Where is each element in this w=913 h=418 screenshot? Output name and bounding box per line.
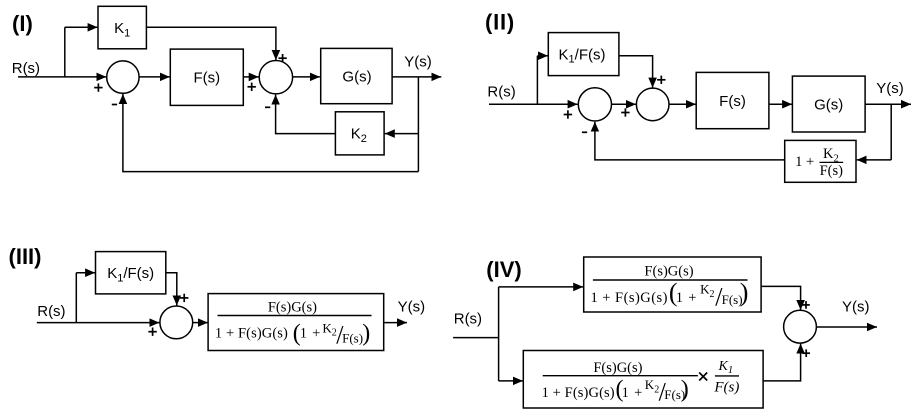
wire R(s) to summer S1 — [18, 76, 106, 78]
summer S2 II — [636, 88, 669, 121]
svg-text:): ) — [362, 321, 370, 347]
wire into K2 — [385, 133, 419, 135]
wire branch up from node — [64, 27, 66, 77]
block K1/F(s) II — [548, 33, 619, 76]
svg-text:1 +: 1 + — [300, 325, 321, 341]
svg-text:F(s)G(s): F(s)G(s) — [593, 360, 642, 376]
svg-text:Y(s): Y(s) — [876, 80, 904, 97]
block upper transfer function IV — [584, 257, 761, 312]
svg-text:F(s): F(s) — [713, 380, 739, 396]
plus sign at summer bottom IV — [802, 349, 810, 357]
wire into K1/F(s) — [537, 55, 548, 57]
summer S1 II — [578, 88, 611, 121]
wire output II — [865, 103, 911, 105]
wire upper block to summer top IV — [761, 286, 801, 310]
summer IV — [784, 310, 817, 343]
plus sign at S1 left — [94, 83, 102, 91]
wire F(s) to G(s) II — [769, 103, 792, 105]
svg-text:1 + F(s)G(s): 1 + F(s)G(s) — [215, 325, 288, 341]
plus sign at S1 left II — [564, 110, 572, 118]
svg-text:R(s): R(s) — [37, 303, 65, 320]
plus sign at S2 top — [278, 54, 286, 62]
wire R(s) input IV — [453, 337, 499, 339]
plus sign at S2 left — [248, 83, 256, 91]
wire K1 to summer S2 top — [146, 27, 276, 60]
svg-text:F(s): F(s) — [342, 330, 363, 345]
wire summer to block III — [193, 322, 208, 324]
summer S2 — [259, 60, 292, 93]
wire S1 to S2 II — [612, 103, 636, 105]
wire into upper block IV — [499, 286, 584, 288]
block F(s) II — [696, 72, 769, 128]
svg-text:F(s): F(s) — [719, 93, 746, 110]
wire output node down — [417, 77, 419, 172]
svg-text:F(s): F(s) — [820, 163, 844, 179]
svg-text:): ) — [740, 278, 749, 307]
block K1 — [98, 6, 146, 49]
wire K2 to summer S2 bottom — [276, 95, 336, 134]
wire branch vertical IV — [498, 287, 500, 381]
wire lower block to summer bottom IV — [763, 344, 801, 381]
block 1+K2/F(s) II — [785, 140, 856, 182]
block G(s) diagram I — [321, 48, 392, 103]
wire output IV — [816, 326, 877, 328]
svg-text:F(s)G(s): F(s)G(s) — [268, 300, 317, 316]
wire outer feedback to S1 bottom — [123, 94, 419, 172]
wire G(s) to output Y(s) — [392, 76, 441, 78]
plus sign at summer left III — [148, 328, 156, 336]
svg-text:G(s): G(s) — [342, 68, 371, 85]
block F(s) diagram I — [170, 49, 243, 105]
svg-text:(IV): (IV) — [486, 257, 521, 282]
svg-text:R(s): R(s) — [454, 310, 482, 327]
svg-text:R(s): R(s) — [487, 83, 515, 100]
svg-text:Y(s): Y(s) — [842, 299, 870, 316]
svg-text:1 + F(s)G(s): 1 + F(s)G(s) — [542, 385, 615, 401]
minus sign at S1 bottom II — [582, 131, 587, 133]
plus sign at S2 top II — [657, 76, 665, 84]
svg-text:(I): (I) — [12, 11, 33, 36]
wire into lower block IV — [499, 380, 523, 382]
block G(s) II — [792, 76, 865, 132]
svg-text:K1/F(s): K1/F(s) — [559, 46, 606, 65]
svg-text:): ) — [681, 376, 689, 402]
block K1/F(s) III — [96, 252, 166, 294]
svg-text:1 + F(s)G(s): 1 + F(s)G(s) — [591, 290, 668, 306]
wire S2 to G(s) — [293, 76, 320, 78]
block K2 — [335, 112, 384, 155]
plus sign at summer top III — [180, 294, 188, 302]
wire F(s) to summer S2 — [243, 76, 258, 78]
svg-text:G(s): G(s) — [814, 96, 843, 113]
svg-text:(II): (II) — [485, 10, 515, 35]
wire into K1 — [65, 26, 98, 28]
wire R(s) to summer S1 II — [489, 103, 578, 105]
wire K1/F out to summer top III — [166, 273, 177, 306]
wire into feedback block II — [857, 159, 892, 161]
wire branch up II — [536, 56, 538, 104]
wire into K1/F III — [76, 272, 95, 274]
svg-text:Y(s): Y(s) — [404, 54, 432, 71]
plus sign between summers II — [621, 108, 629, 116]
minus sign at S2 bottom — [265, 106, 270, 108]
svg-text:(III): (III) — [9, 244, 42, 269]
svg-text:F(s): F(s) — [193, 70, 220, 87]
svg-text:Y(s): Y(s) — [398, 299, 426, 316]
times sign IV — [699, 373, 707, 381]
plus sign at summer top IV — [802, 301, 810, 309]
wire output III — [384, 322, 407, 324]
svg-text:1 +: 1 + — [622, 385, 643, 401]
summer III — [160, 306, 193, 339]
svg-text:K1/F(s): K1/F(s) — [107, 265, 154, 284]
summer S1 — [107, 61, 139, 93]
wire S1 to F(s) — [139, 76, 170, 78]
minus sign at S1 bottom — [112, 104, 117, 106]
wire feedback to S1 bottom II — [595, 122, 785, 160]
svg-text:1 +: 1 + — [676, 290, 697, 306]
svg-text:R(s): R(s) — [12, 60, 40, 77]
svg-text:1 +: 1 + — [795, 154, 814, 170]
wire K1/F to summer S2 top II — [619, 56, 653, 88]
wire R(s) to summer III — [37, 322, 160, 324]
wire S2 to F(s) II — [669, 103, 696, 105]
block lower transfer function IV — [523, 351, 763, 409]
wire output node down II — [890, 104, 892, 160]
block transfer function III — [208, 294, 384, 351]
wire branch up III — [75, 273, 77, 323]
